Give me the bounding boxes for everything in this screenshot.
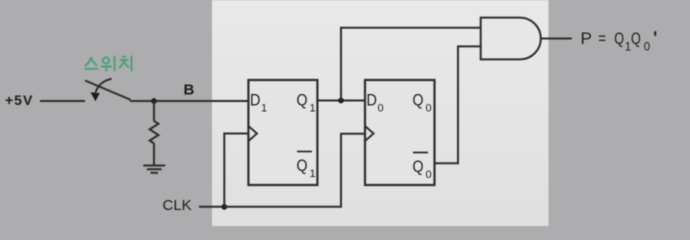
wire node B to resistor <box>153 101 155 121</box>
wire CLK junction to U1 clock input <box>224 134 248 207</box>
svg-text:0: 0 <box>378 102 384 114</box>
node B junction dot <box>151 98 157 104</box>
switch S1 <box>85 79 131 101</box>
label D0 <box>367 90 384 114</box>
svg-text:0: 0 <box>426 102 432 114</box>
wire AND gate output <box>541 38 572 40</box>
svg-text:Q: Q <box>297 156 308 175</box>
wire CLK stub <box>199 206 224 208</box>
svg-text:CLK: CLK <box>163 197 192 214</box>
node CLK junction dot <box>221 204 227 210</box>
svg-text:Q: Q <box>297 90 308 109</box>
wire node B to flip-flop U1 D input <box>154 100 248 102</box>
svg-text:B: B <box>184 82 195 99</box>
flip-flop U2 box <box>365 80 435 185</box>
svg-text:+5V: +5V <box>5 92 33 108</box>
wire CLK to U2 clock input <box>224 134 365 207</box>
wire +5V to switch <box>40 100 85 102</box>
node Q1 junction dot <box>338 98 344 104</box>
label CLK <box>163 197 192 214</box>
svg-text:1: 1 <box>310 168 316 180</box>
svg-text:=: = <box>598 29 606 48</box>
U1 clock triangle <box>248 126 257 141</box>
svg-text:1: 1 <box>310 102 316 114</box>
wire Q0-bar to AND gate bottom input <box>435 46 481 163</box>
svg-text:Q: Q <box>614 29 624 48</box>
label D1 <box>250 90 267 114</box>
ground <box>143 166 165 173</box>
wire Q1 to U2 D input <box>317 100 365 102</box>
svg-text:Q: Q <box>413 157 424 176</box>
svg-text:P: P <box>581 29 592 48</box>
svg-text:Q: Q <box>631 29 641 48</box>
label P = Q1Q0' <box>581 29 656 53</box>
flip-flop U1 box <box>248 80 317 185</box>
resistor R1 <box>150 121 159 143</box>
svg-text:D: D <box>367 90 377 109</box>
wire switch to node B <box>130 100 154 102</box>
label Q1 <box>297 90 316 114</box>
svg-text:0: 0 <box>644 41 650 53</box>
wire Q1 junction to AND gate top input <box>341 28 481 101</box>
label Q0 <box>413 90 432 114</box>
U2 clock triangle <box>365 126 374 141</box>
label 스위치 (switch) <box>85 57 132 71</box>
svg-text:D: D <box>250 90 260 109</box>
power label +5V <box>5 92 33 108</box>
wire resistor to ground <box>153 143 155 165</box>
label Q0-bar <box>413 153 432 182</box>
label Q1-bar <box>297 152 316 181</box>
svg-text:Q: Q <box>413 90 424 109</box>
AND gate U3 <box>481 18 541 60</box>
svg-text:0: 0 <box>426 169 432 181</box>
svg-text:1: 1 <box>261 102 267 114</box>
label B <box>184 82 195 99</box>
